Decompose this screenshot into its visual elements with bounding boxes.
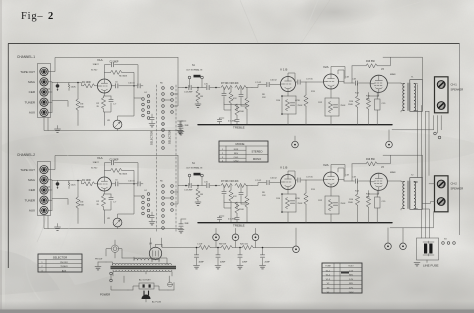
wire plate to feedback loop — [104, 65, 138, 86]
svg-text:TUNER: TUNER — [25, 100, 36, 104]
svg-text:C17 05: C17 05 — [306, 177, 314, 179]
svg-text:C17 05: C17 05 — [306, 79, 314, 81]
potentiometer VR3 40K (treble) — [235, 183, 246, 187]
wire pot to bus — [118, 98, 135, 131]
svg-text:1M: 1M — [200, 194, 203, 196]
input jack J1-2 (MAG) — [40, 78, 48, 86]
svg-text:470K: 470K — [295, 198, 300, 200]
capacitor C5 (coupling) — [116, 84, 118, 88]
wire plate to C5 — [111, 85, 114, 87]
terminal node A (B+ end) — [293, 246, 300, 253]
svg-text:295V: 295V — [349, 292, 354, 294]
svg-text:POWER: POWER — [100, 293, 110, 297]
input jack J2-2 (MAG) — [40, 176, 48, 184]
screw terminal CH-1-2 — [437, 102, 445, 110]
resistor R13 470K — [305, 82, 307, 95]
svg-text:C10 01: C10 01 — [128, 83, 136, 85]
svg-text:R16 56K: R16 56K — [366, 61, 375, 63]
capacitor C18 (coupling to output) — [355, 81, 357, 85]
PT secondary winding — [113, 270, 172, 272]
wire input row — [52, 181, 84, 184]
svg-text:TUNER: TUNER — [25, 198, 36, 202]
svg-text:V2A: V2A — [323, 163, 329, 167]
capacitor C (grid) — [267, 180, 269, 184]
svg-text:6BM8: 6BM8 — [390, 74, 396, 76]
selector S2 contact column a — [142, 98, 145, 101]
output transformer T1 — [410, 80, 423, 112]
capacitor C16 — [223, 88, 225, 94]
wire top rail drop — [177, 58, 179, 88]
svg-text:R14390K: R14390K — [348, 101, 354, 106]
svg-text:TREBLE: TREBLE — [233, 126, 245, 130]
wire V1B plate out — [288, 73, 297, 82]
svg-text:250K: 250K — [341, 105, 346, 107]
selector S2 contact column c — [162, 185, 165, 188]
capacitor C (coupling V1B-V2A) — [298, 80, 300, 84]
svg-text:C10 01: C10 01 — [128, 181, 136, 183]
T1 core — [408, 83, 410, 111]
svg-text:R16 56K: R16 56K — [366, 159, 375, 161]
resistor R2 560K — [68, 83, 70, 91]
wire T1 leads — [401, 83, 418, 112]
wire T2 secondary to speaker 2 — [422, 202, 434, 239]
svg-text:6BM8: 6BM8 — [390, 172, 396, 174]
svg-text:NOR: NOR — [234, 149, 239, 151]
resistor R9 (tone) — [230, 88, 232, 93]
wire top rail drop — [177, 156, 179, 186]
resistor R3 1M (grid leak) — [77, 83, 79, 100]
svg-text:SPEAKER: SPEAKER — [451, 187, 464, 191]
triode V1B (second stage) — [281, 77, 296, 92]
ground (20MF) — [260, 266, 266, 269]
svg-text:R1 100K: R1 100K — [82, 180, 91, 182]
capacitor C19 (box) — [375, 99, 381, 110]
selector table S2 — [38, 254, 82, 272]
svg-text:250K: 250K — [298, 105, 303, 107]
resistor R10 (V1B cathode) — [285, 198, 289, 209]
T1 secondary winding — [414, 84, 416, 111]
svg-text:C3 380P: C3 380P — [110, 159, 119, 161]
output transformer T2 — [410, 178, 423, 210]
wire input row — [52, 83, 84, 86]
svg-text:TREBLE: TREBLE — [233, 224, 245, 228]
svg-text:S1 NO: S1 NO — [91, 70, 98, 72]
resistor R17 (B+ filter) — [199, 245, 210, 249]
resistor R2 560K — [68, 181, 70, 189]
svg-text:TAPE OUT: TAPE OUT — [20, 70, 35, 74]
electrolytic capacitor 40MF — [217, 248, 219, 255]
resistor R1 100K (grid stopper) — [84, 84, 95, 88]
crease lines — [300, 0, 318, 43]
svg-text:1M: 1M — [200, 96, 203, 98]
node dots B+ rail — [196, 247, 198, 249]
svg-text:2: 2 — [48, 11, 53, 22]
svg-text:88V: 88V — [349, 283, 353, 285]
capacitor C20 (mid, to ground) — [178, 121, 184, 125]
resistor R9 (tone) — [230, 186, 232, 191]
svg-text:C.5 02: C.5 02 — [255, 180, 262, 182]
capacitor C13 2MF — [189, 183, 191, 187]
capacitor C17 — [240, 186, 242, 193]
svg-text:C3 380P: C3 380P — [110, 61, 119, 63]
AC plug P1 — [142, 295, 151, 300]
line fuse box — [417, 238, 439, 260]
switch S1A (tape monitor) — [188, 76, 191, 79]
svg-text:CUT NORMAL IN: CUT NORMAL IN — [186, 69, 203, 72]
capacitor C18 (coupling to output) — [355, 179, 357, 183]
selector gang dashed link 2 — [175, 85, 177, 232]
capacitor C10 (to selector) — [138, 84, 140, 88]
ground (input) — [55, 227, 61, 230]
terminal tap T1 — [213, 234, 220, 241]
svg-text:47K: 47K — [233, 196, 237, 198]
resistor R15 — [368, 191, 370, 223]
selector S2 contact column d — [171, 185, 174, 188]
wire V1B plate out — [288, 171, 297, 180]
wire tone tie — [224, 104, 247, 106]
V2A bias network — [325, 187, 339, 223]
resistor R15 — [368, 93, 370, 125]
svg-text:0.5 2MF: 0.5 2MF — [228, 219, 236, 221]
capacitor C9 (V2A bypass) — [333, 105, 337, 107]
resistor R18 (B+ filter) — [221, 245, 232, 249]
svg-text:CH-1: CH-1 — [451, 83, 458, 87]
svg-text:C13 2MF: C13 2MF — [184, 92, 193, 94]
electrolytic capacitor 20MF — [239, 248, 241, 255]
wire plate to feedback loop — [104, 163, 138, 184]
capacitor C21 (bus left) — [217, 119, 221, 121]
capacitor C15 — [207, 183, 209, 187]
svg-text:R1 100K: R1 100K — [82, 82, 91, 84]
resistor R12 (V2A cathode) — [328, 200, 332, 211]
resistor R1 100K (grid stopper) — [84, 182, 95, 186]
svg-text:SELECTOR: SELECTOR — [53, 255, 67, 259]
node dots mid rail — [185, 87, 187, 89]
fuse transformer winding (bold) — [424, 244, 427, 254]
svg-text:AUX: AUX — [29, 111, 35, 115]
wire T1 secondary to mode/fuse — [392, 85, 435, 238]
svg-text:LINE FUSE: LINE FUSE — [423, 264, 439, 268]
switch S3 contacts — [442, 242, 445, 245]
svg-text:TUBE: TUBE — [325, 266, 331, 268]
capacitor C3 380P (feedback) — [111, 161, 113, 165]
resistor R16 56K (NFB) — [352, 65, 366, 67]
svg-text:RW 1W: RW 1W — [219, 244, 226, 246]
svg-text:C.5 02: C.5 02 — [255, 82, 262, 84]
wire plate to T2 — [369, 181, 402, 194]
svg-text:250K: 250K — [341, 203, 346, 205]
wire R1 to grid — [95, 85, 98, 87]
ground bus (heavy) — [198, 222, 392, 224]
svg-text:20MF: 20MF — [265, 262, 271, 264]
resistor R4 360K (feedback) — [104, 71, 110, 73]
svg-text:C16 02: C16 02 — [270, 178, 278, 180]
capacitor C2 (cathode bypass) — [109, 99, 113, 101]
input jack J2-4 (TUNER) — [40, 196, 48, 204]
input jack J1-3 (CER) — [40, 88, 48, 96]
triode V2A (third stage) — [324, 74, 339, 89]
wire speaker1 drops — [438, 116, 442, 134]
speaker terminal block CH-2 — [435, 176, 449, 212]
voltage chart table — [322, 263, 362, 294]
ground (C14) — [178, 132, 184, 135]
node dot input — [77, 82, 79, 84]
svg-text:MONO: MONO — [253, 157, 261, 161]
svg-text:VOLT: VOLT — [348, 266, 354, 268]
svg-text:0.5 2MF: 0.5 2MF — [228, 121, 236, 123]
svg-text:C13 2MF: C13 2MF — [184, 190, 193, 192]
svg-text:20MF: 20MF — [242, 262, 248, 264]
svg-text:STEREO: STEREO — [251, 149, 262, 153]
electrolytic capacitor 20MF — [262, 248, 264, 255]
svg-text:2MF: 2MF — [185, 125, 190, 127]
svg-text:V 1 B: V 1 B — [280, 68, 287, 72]
wire selector to rail — [165, 88, 184, 107]
input jack J1-1 (TAPE OUT) — [40, 68, 48, 76]
capacitor C14 2MF (rail bypass) — [181, 121, 186, 126]
ground (psu left) — [95, 267, 101, 270]
svg-text:40MF: 40MF — [199, 262, 205, 264]
svg-text:1.5V: 1.5V — [349, 270, 354, 272]
wire V2A top loop — [331, 165, 345, 177]
resistor R7 50K (tone) — [221, 85, 232, 89]
wire fuse box leads — [426, 260, 428, 263]
svg-text:CHANNEL-1: CHANNEL-1 — [17, 55, 35, 59]
svg-text:CUT NORMAL IN: CUT NORMAL IN — [186, 167, 203, 170]
resistor R3 (cathode) — [101, 98, 105, 109]
resistor R11 (tone lower) — [245, 196, 249, 207]
wire T2 leads — [401, 181, 418, 210]
terminal node B (ch1 B+) — [292, 141, 299, 148]
electrolytic capacitor 40MF — [196, 248, 198, 255]
wire tuner jack feed — [52, 101, 68, 107]
mode table S3 — [219, 141, 268, 162]
resistor R14 390K — [357, 181, 359, 194]
svg-text:CER: CER — [29, 188, 36, 192]
svg-text:86V: 86V — [349, 275, 353, 277]
svg-text:560K: 560K — [71, 184, 76, 186]
B+ distribution rail — [198, 247, 199, 249]
svg-text:V 1 B: V 1 B — [280, 166, 287, 170]
PT HV winding (upper) — [134, 258, 159, 260]
wire plate to C5 — [111, 183, 114, 185]
ground (C6) — [149, 124, 155, 127]
wire mid rail — [183, 185, 188, 187]
input jack J1-5 (AUX) — [40, 108, 48, 116]
svg-text:150K: 150K — [239, 111, 244, 113]
resistor R16 56K (NFB) — [352, 163, 366, 165]
capacitor C14 2MF (rail bypass) — [181, 219, 186, 224]
wire tone out to V1B grid — [252, 85, 266, 88]
wire V2A plate out — [338, 168, 344, 181]
svg-text:12AX7: 12AX7 — [93, 161, 100, 164]
capacitor C16 — [223, 186, 225, 192]
selector contact column mid — [162, 123, 165, 126]
wire PT leads — [106, 257, 172, 276]
ground (40MF) — [215, 266, 221, 269]
switch S1B (tape monitor) — [188, 174, 191, 177]
svg-text:1.6V: 1.6V — [349, 279, 354, 281]
wire C10 to selector contacts — [134, 184, 143, 196]
resistor R12 (V2A cathode) — [328, 102, 332, 113]
capacitor C17 — [240, 88, 242, 95]
wire V2A top loop — [331, 67, 345, 79]
resistor R17 150K — [235, 104, 239, 115]
screw terminal CH-2-2 — [437, 198, 445, 206]
svg-text:40MF: 40MF — [220, 262, 226, 264]
svg-text:17V: 17V — [349, 288, 353, 290]
svg-text:C 1W: C 1W — [197, 244, 202, 246]
svg-text:S1 NO: S1 NO — [91, 168, 98, 170]
capacitor C (grid) — [267, 82, 269, 86]
capacitor C8 (V1B bypass) — [290, 103, 294, 105]
selector S2 contact column b — [147, 193, 150, 196]
input jack panel J1 — [38, 64, 51, 118]
svg-text:AUX: AUX — [62, 269, 67, 272]
capacitor C6 (to ground) — [151, 212, 153, 216]
svg-text:CH-1: CH-1 — [234, 157, 240, 159]
svg-text:AUX: AUX — [29, 209, 35, 213]
wire pot to bus — [118, 196, 135, 229]
svg-text:V1A: V1A — [97, 58, 103, 62]
capacitor C10 (to selector) — [138, 182, 140, 186]
capacitor C5 (coupling) — [116, 182, 118, 186]
svg-text:V1A: V1A — [97, 156, 103, 160]
svg-text:R20 100: R20 100 — [240, 244, 249, 246]
wire jack panel ground drop — [44, 118, 183, 131]
potentiometer VR3 40K (treble) — [235, 85, 246, 89]
capacitor C (coupling V1B-V2A) — [298, 178, 300, 182]
capacitor C3 380P (feedback) — [111, 62, 113, 66]
svg-text:VR: VR — [107, 120, 110, 122]
svg-text:SELECTOR: SELECTOR — [168, 130, 172, 144]
input jack J2-5 (AUX) — [40, 206, 48, 214]
resistor R10 (V1B cathode) — [285, 100, 289, 111]
capacitor C21 (bus left) — [217, 217, 221, 219]
V2A bias network — [325, 89, 339, 125]
svg-text:TUNER: TUNER — [60, 266, 68, 268]
wire jack panel ground drop — [44, 216, 183, 229]
capacitor C15 — [207, 85, 209, 89]
triode V2A (first stage) — [97, 177, 111, 191]
svg-text:V2A: V2A — [323, 65, 329, 69]
input jack J2-1 (TAPE OUT) — [40, 166, 48, 174]
pentode V3 (output) — [370, 173, 387, 190]
ground (C6) — [149, 222, 155, 225]
resistor R13 470K — [305, 180, 307, 193]
T1 primary winding — [403, 84, 405, 111]
ground (20MF) — [237, 266, 243, 269]
wire V2A plate out — [338, 70, 344, 83]
svg-text:MAG: MAG — [28, 178, 36, 182]
svg-text:560K: 560K — [71, 86, 76, 88]
svg-text:REV: REV — [234, 153, 239, 155]
ground (R5) — [195, 104, 201, 107]
selector S2 contact column b — [147, 95, 150, 98]
rectifier tube V4 — [149, 247, 161, 259]
wire pilot lamp leads — [106, 240, 122, 258]
capacitor C1 (input, dark bead) — [57, 181, 59, 188]
node dot input — [77, 180, 79, 182]
terminal tap T3 — [252, 234, 259, 241]
screw terminal CH-2-1 — [437, 180, 445, 188]
svg-text:SPEAKER: SPEAKER — [451, 88, 464, 92]
capacitor C8 (V1B bypass) — [290, 201, 294, 203]
wire tuner jack feed — [52, 199, 68, 205]
wire selector to rail — [165, 186, 184, 205]
resistor R5 1M — [197, 88, 199, 91]
V1B bias network — [282, 190, 296, 223]
T2 core — [408, 181, 410, 209]
capacitor C1 (input, dark bead) — [57, 83, 59, 90]
T2 primary winding — [403, 182, 405, 209]
svg-text:R7 50K VR3 40K: R7 50K VR3 40K — [221, 83, 239, 85]
wire jack bus — [48, 156, 178, 211]
svg-text:MAG: MAG — [28, 80, 36, 84]
svg-text:AC OUTLET: AC OUTLET — [139, 278, 151, 281]
T2 secondary winding — [414, 182, 416, 209]
svg-text:12AX7: 12AX7 — [93, 63, 100, 66]
terminal node C (ch1 bias) — [386, 141, 393, 148]
svg-text:PRI 1W: PRI 1W — [95, 259, 102, 261]
triode V2A (third stage) — [324, 172, 339, 187]
ground (C20) — [177, 131, 183, 134]
svg-text:AC PLUG: AC PLUG — [152, 301, 162, 304]
pentode V3 (output) — [370, 75, 387, 92]
wire plate to T1 — [369, 83, 402, 96]
PT primary winding — [113, 263, 172, 265]
speaker terminal block CH-1 — [435, 77, 449, 113]
capacitor C22 (bus mid) — [235, 217, 239, 219]
svg-text:CER: CER — [29, 90, 36, 94]
wire jack bus — [48, 58, 178, 113]
resistor R7 50K (tone) — [221, 183, 232, 187]
capacitor C2 (cathode bypass) — [109, 197, 113, 199]
wire cathode — [104, 191, 112, 224]
wire tone tie — [224, 202, 247, 204]
svg-text:SELECTOR: SELECTOR — [150, 131, 154, 145]
capacitor C9 (V2A bypass) — [333, 203, 337, 205]
V1B bias network — [282, 92, 296, 125]
wire PSU loop (mains) — [111, 275, 174, 290]
selector S2 contact column a — [142, 196, 145, 199]
ground bus (heavy) — [198, 124, 392, 126]
resistor R5 1M — [197, 186, 199, 189]
svg-text:CH-2: CH-2 — [234, 160, 240, 162]
wire B+ from rectifier — [151, 238, 199, 249]
potentiometer VR2 (volume) — [113, 218, 122, 227]
ground (40MF) — [194, 266, 200, 269]
fuse F1 — [168, 282, 173, 287]
svg-text:CHANNEL-2: CHANNEL-2 — [17, 153, 35, 157]
wire node A riser — [295, 228, 297, 246]
ground (R5) — [195, 202, 201, 205]
wire C5 to C10 — [119, 183, 137, 185]
svg-text:PHONO: PHONO — [60, 262, 68, 264]
border frame — [8, 44, 460, 269]
resistor R4 360K (feedback) — [104, 169, 110, 171]
svg-text:R7 50K VR3 40K: R7 50K VR3 40K — [221, 181, 239, 183]
triode V2B (second stage) — [281, 175, 296, 190]
terminal node E — [400, 243, 407, 250]
svg-text:250K: 250K — [298, 203, 303, 205]
resistor R11 (tone lower) — [245, 98, 249, 109]
capacitor C6 (to ground) — [151, 114, 153, 118]
terminal tap T2 — [232, 234, 239, 241]
input jack J2-3 (CER) — [40, 186, 48, 194]
resistor R17 150K — [235, 202, 239, 213]
pilot lamp PL — [111, 245, 118, 252]
